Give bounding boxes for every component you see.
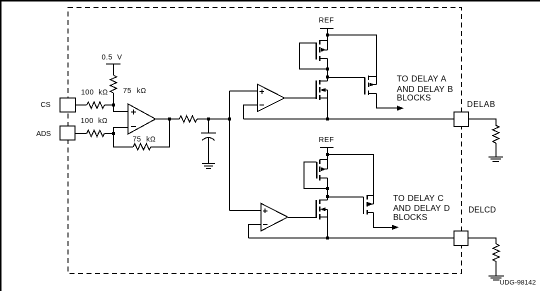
wire node A to op-amp + [114,105,129,111]
wire Q4 gate loop [304,162,328,188]
wire ADS pad to R2 [75,132,87,134]
ground G3 [488,276,504,280]
wire node B to op-amp minus [114,128,129,134]
wire R1 to node A [105,104,114,106]
arrow to delay C/D [392,225,399,230]
comparator U3 [261,203,288,231]
wire mirror node to Q3 gate [327,76,365,78]
supply terminal REF lower [320,148,334,170]
arrow to delay A/B [397,106,404,111]
wire U2 minus feedback [243,105,257,119]
transistor Q1 (PMOS diode-connected) [315,42,317,59]
wire Q1 gate loop [300,43,328,69]
net DELAB line [243,118,454,120]
node H junction (Q2 source to DELAB line) [326,118,329,121]
resistor R3 75k [110,75,116,93]
ground G2 [489,157,503,161]
node REF1 junction [326,34,329,37]
wire to U3 plus input [229,209,260,211]
svg-text:TO DELAY C: TO DELAY C [393,193,444,203]
wire node E vertical to both comparators [228,91,230,210]
svg-text:100 kΩ: 100 kΩ [81,116,108,125]
resistor R6 [493,125,499,143]
node K junction (Q5 source to DELCD line) [326,237,329,240]
svg-text:BLOCKS: BLOCKS [393,212,428,222]
pad DELCD [454,231,468,246]
svg-text:75 kΩ: 75 kΩ [123,86,147,95]
wire mirror node to Q6 gate [327,196,363,198]
transistor Q6 (PMOS output) [363,197,365,214]
pad ADS [60,126,75,140]
node E junction (comparator branch) [228,118,231,121]
svg-text:BLOCKS: BLOCKS [397,92,432,102]
node D junction (cap node) [207,118,210,121]
wire CS pad to R1 [75,104,86,106]
wire REF2 to Q6 source [327,155,373,196]
wire U3 minus feedback [249,224,261,238]
wire R5 to node D [197,118,229,120]
wire to U2 plus input [229,90,257,92]
resistor R4 75k feedback [133,144,151,150]
svg-text:UDG-98142: UDG-98142 [500,280,536,287]
resistor R5 series [179,116,197,122]
svg-text:ADS: ADS [36,129,51,138]
wire DELCD pad to R7 [468,238,496,244]
node B junction [112,132,115,135]
wire R6 to ground [495,143,497,157]
wire Q6 drain to delay arrow [374,213,393,228]
transistor Q4 (PMOS diode-connected) [316,162,318,179]
wire U2 output to Q2 gate [285,97,317,99]
wire U1 output [156,118,180,120]
svg-text:DELCD: DELCD [468,206,496,215]
svg-text:DELAB: DELAB [467,100,495,109]
supply terminal REF upper [320,28,334,50]
wire R4 to op-amp output [151,119,170,147]
svg-text:0.5 V: 0.5 V [102,52,123,61]
net DELCD line [249,237,454,239]
ground G1 [202,164,215,169]
svg-text:REF: REF [319,135,335,144]
comparator U2 [258,84,285,111]
capacitor C1 [201,119,216,164]
pad DELAB [454,112,469,126]
node A junction [112,104,115,107]
transistor Q2 (NMOS) [315,81,317,99]
wire R2 to node B [105,132,114,134]
node REF2 junction [326,153,329,156]
node C junction (U1 out) [168,118,171,121]
svg-text:75 kΩ: 75 kΩ [133,135,157,144]
resistor R1 [87,102,105,108]
node I junction (diode node lower) [326,187,329,190]
IC boundary (dashed) [68,8,461,274]
resistor R2 [87,130,105,136]
transistor Q5 (NMOS) [315,200,317,218]
svg-text:100 kΩ: 100 kΩ [81,87,108,96]
wire U3 output to Q5 gate [288,216,316,218]
transistor Q3 (PMOS output) [364,77,366,94]
node J junction (mirror node lower) [326,195,329,198]
wire Q3 drain to delay arrow [376,93,397,108]
pad CS [60,98,75,112]
node G junction (mirror node) [326,75,329,78]
svg-text:REF: REF [319,15,335,24]
wire R3 to node A [113,93,115,105]
wire R7 to ground [495,262,497,276]
op-amp U1 [128,104,155,134]
resistor R7 [493,244,499,262]
wire node B down to R4 [114,133,134,146]
wire REF1 to Q3 source [327,35,376,76]
svg-text:CS: CS [41,100,51,109]
svg-text:TO DELAY A: TO DELAY A [397,73,447,83]
node F junction (diode node) [326,68,329,71]
wire DELAB pad to R6 [469,119,496,125]
